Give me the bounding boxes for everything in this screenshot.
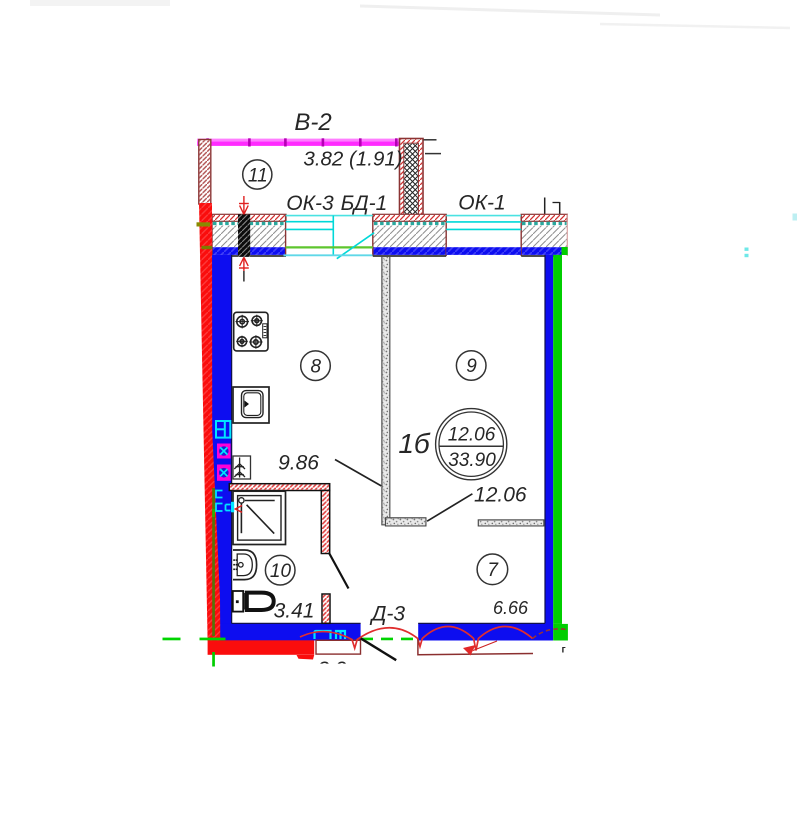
svg-text:9.86: 9.86 (278, 452, 319, 475)
svg-text:1б: 1б (398, 428, 431, 459)
svg-text:3.82 (1.91): 3.82 (1.91) (303, 148, 402, 171)
svg-text:6.66: 6.66 (493, 598, 529, 618)
svg-text:12.06: 12.06 (448, 425, 496, 446)
svg-text:10: 10 (270, 561, 292, 582)
svg-text:33.90: 33.90 (448, 450, 496, 471)
svg-text:9: 9 (466, 356, 477, 377)
svg-text:11: 11 (248, 165, 268, 186)
svg-text:12.06: 12.06 (474, 484, 527, 507)
svg-text:В-2: В-2 (294, 109, 331, 136)
svg-text:3.41: 3.41 (274, 600, 315, 623)
svg-text:8: 8 (311, 356, 322, 377)
svg-text:Д-3: Д-3 (370, 603, 406, 626)
svg-text:БД-1: БД-1 (341, 192, 388, 215)
svg-text:ОК-1: ОК-1 (458, 192, 505, 215)
svg-text:г: г (562, 645, 566, 656)
svg-text:7: 7 (487, 560, 499, 581)
svg-text:ОК-3: ОК-3 (286, 192, 334, 215)
